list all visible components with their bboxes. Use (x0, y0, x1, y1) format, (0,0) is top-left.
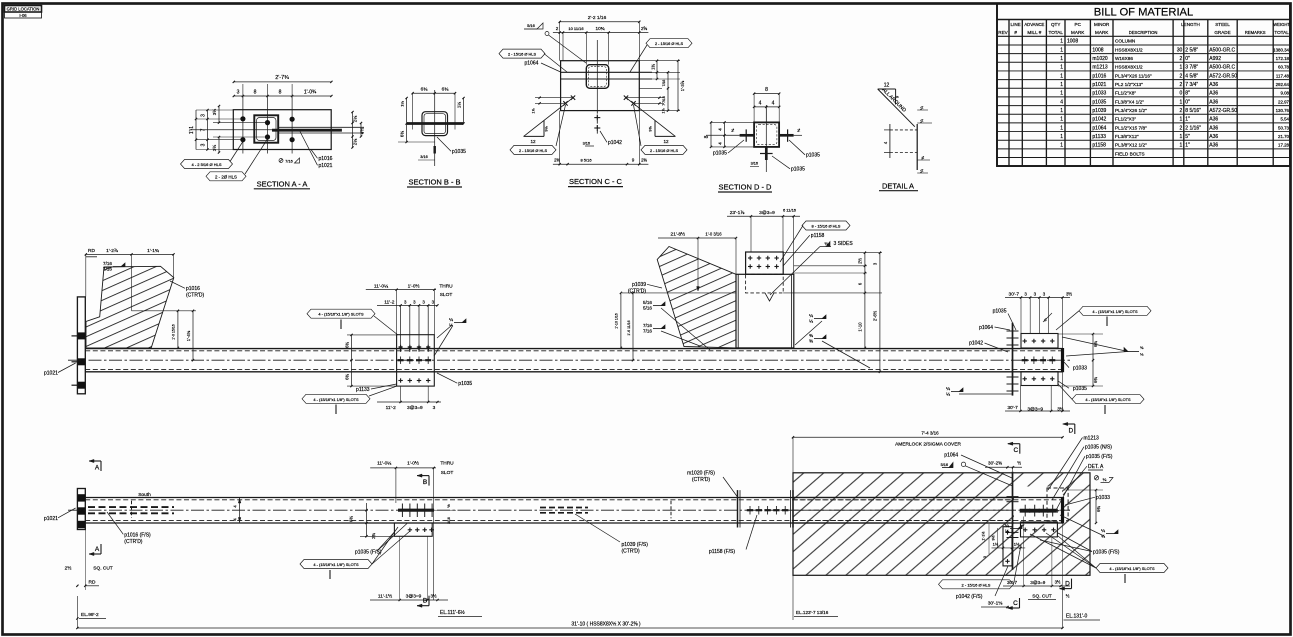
left dimension 6 3/4 1 1/4 (section B-B) (406, 98, 408, 142)
slope triangle left (section C-C) (524, 135, 544, 137)
svg-text:2 - 15/16 Ø HLS: 2 - 15/16 Ø HLS (655, 41, 684, 46)
svg-text:p1033: p1033 (1073, 365, 1087, 371)
svg-text:SECTION B - B: SECTION B - B (408, 178, 460, 187)
svg-text:2: 2 (1180, 82, 1183, 88)
plate p1035 edge bar (section B-B) (407, 122, 464, 125)
plate p1016 face (section A-A) (233, 110, 331, 150)
left dimension 8 and 4 4 (section D-D) (710, 122, 712, 146)
svg-text:3@3=9: 3@3=9 (759, 210, 775, 216)
svg-text:SECTION C - C: SECTION C - C (569, 177, 623, 186)
svg-text:1: 1 (1060, 108, 1063, 114)
svg-text:11'-2: 11'-2 (386, 405, 396, 411)
svg-text:3: 3 (201, 143, 207, 146)
svg-text:3½: 3½ (1066, 291, 1072, 296)
svg-text:MINOR: MINOR (1094, 22, 1110, 27)
svg-text:6 11/16: 6 11/16 (783, 208, 797, 213)
svg-text:1'-3⅞: 1'-3⅞ (680, 80, 685, 91)
dimension 4 4 (section D-D) (754, 106, 779, 108)
callout 2 - 15/16 HLS upper left (section C-C) (499, 49, 545, 58)
svg-text:3@3=9: 3@3=9 (1027, 407, 1043, 413)
hidden lines (bottom elevation) (85, 499, 1062, 501)
svg-text:1'-10: 1'-10 (858, 322, 863, 332)
svg-text:2: 2 (1180, 56, 1183, 62)
overall dimension 31'-10 (bottom) (77, 627, 1062, 629)
svg-text:BILL OF MATERIAL: BILL OF MATERIAL (1094, 7, 1193, 19)
svg-text:p1035: p1035 (993, 308, 1007, 314)
svg-text:12: 12 (530, 139, 536, 144)
svg-text:p1064: p1064 (525, 61, 539, 67)
svg-text:A36: A36 (1209, 99, 1218, 105)
svg-text:1'-10 1/16: 1'-10 1/16 (615, 313, 619, 329)
svg-text:TOTAL: TOTAL (1049, 30, 1064, 35)
svg-text:p1021: p1021 (319, 163, 333, 169)
svg-text:3/16: 3/16 (583, 142, 590, 146)
svg-text:4 - (15/16"x1 1/8") SLOTS: 4 - (15/16"x1 1/8") SLOTS (1109, 566, 1155, 571)
svg-text:22.97: 22.97 (1278, 99, 1290, 104)
svg-text:2⅝: 2⅝ (641, 26, 647, 31)
hidden flange dashed (top elevation) (746, 274, 784, 293)
slot verticals (top view) (400, 305, 402, 352)
svg-text:p1064: p1064 (1092, 125, 1106, 131)
svg-text:⅜: ⅜ (809, 333, 813, 338)
svg-text:1¼: 1¼ (400, 101, 405, 107)
gusset plate p1016 hatched (top elevation) (86, 266, 174, 348)
svg-text:8 5/16: 8 5/16 (580, 158, 592, 163)
svg-text:m1020: m1020 (1092, 56, 1108, 62)
plate p1039 face (section C-C) (561, 61, 640, 111)
callout 2 - 15/16 HLS lower right (section C-C) (641, 145, 687, 154)
svg-text:30'-2⅝: 30'-2⅝ (988, 461, 1002, 466)
svg-text:REV: REV (998, 30, 1008, 35)
svg-text:1: 1 (1060, 117, 1063, 123)
svg-text:7 7/16: 7 7/16 (662, 96, 666, 106)
svg-text:6¾: 6¾ (1093, 377, 1098, 383)
bolt crosses upper row (top view) (398, 346, 402, 348)
cap plate p1158 (top elevation) (746, 252, 784, 274)
svg-text:12: 12 (663, 139, 669, 144)
svg-text:7/16: 7/16 (643, 323, 652, 328)
plate p1035 left bar (section D-D) (740, 134, 755, 137)
bill of material table (997, 4, 1290, 167)
svg-text:17.28: 17.28 (1278, 143, 1290, 148)
plate p1021 bar edge (section A-A) (272, 129, 342, 132)
svg-text:172.18: 172.18 (1276, 56, 1290, 61)
svg-text:¼: ¼ (946, 386, 950, 391)
svg-text:8 - 15/16 Ø HLS: 8 - 15/16 Ø HLS (812, 224, 841, 229)
svg-text:SQ. CUT: SQ. CUT (1032, 594, 1052, 600)
bolts 2 5/16 dia (section A-A) (240, 116, 245, 121)
svg-text:A36: A36 (1209, 143, 1218, 149)
svg-text:5/16: 5/16 (643, 300, 652, 305)
svg-text:#: # (1014, 30, 1017, 35)
svg-text:p1064: p1064 (979, 325, 993, 331)
svg-text:A: A (95, 546, 100, 553)
svg-text:1: 1 (1060, 39, 1063, 45)
member centerline (top elevation) (68, 359, 1070, 361)
dimension row 2 10 11/16 10 3/4 2 5/8 (section C-C) (553, 32, 649, 34)
member outline (top elevation) (85, 348, 1062, 350)
upper dim row 11'-0 1/4 1'-0 1/2 thru slot (bottom) (370, 467, 436, 469)
svg-text:1: 1 (1180, 99, 1183, 105)
svg-text:p1133: p1133 (1092, 134, 1106, 140)
svg-text:30'-1⅛: 30'-1⅛ (988, 601, 1004, 607)
svg-text:WEIGHT: WEIGHT (1273, 22, 1290, 27)
vertical centerline (section D-D) (765, 105, 767, 172)
svg-text:PC: PC (1075, 22, 1082, 27)
bottom dimension row (section C-C) (553, 163, 649, 165)
svg-text:1'-1½: 1'-1½ (982, 532, 986, 541)
svg-text:A36: A36 (1209, 91, 1218, 97)
slope triangle 12 (detail A) (878, 88, 896, 90)
svg-text:1'-0 3/16: 1'-0 3/16 (705, 232, 722, 237)
left dimension 1'-1 (section A-A) (195, 110, 197, 150)
svg-text:FL3/8"X12": FL3/8"X12" (1115, 134, 1139, 139)
bolt bar on centerline (bottom elevation) (1020, 509, 1057, 513)
svg-text:2'-6½: 2'-6½ (873, 310, 878, 321)
m1020 flange marks (bottom elevation) (737, 490, 739, 527)
section marker C bottom (bottom elevation) (1019, 598, 1021, 608)
svg-text:292.64: 292.64 (1276, 82, 1290, 87)
slot dashes between flanges (bottom elevation) (747, 509, 753, 511)
svg-text:3@3=9: 3@3=9 (1030, 580, 1045, 585)
svg-text:p1035: p1035 (806, 153, 820, 159)
callout slots right (bottom elevation) (1096, 564, 1168, 573)
svg-text:p1158: p1158 (1092, 143, 1106, 149)
left dimension 3 1/2 pair (section A-A) (218, 106, 220, 123)
section marker A top (bottom elevation) (89, 460, 101, 462)
svg-text:COLUMN: COLUMN (1115, 39, 1135, 44)
bolt crosses lower (top elevation) (1023, 378, 1027, 380)
svg-text:1'-2⅞: 1'-2⅞ (106, 248, 119, 254)
svg-text:p1039: p1039 (1092, 108, 1106, 114)
svg-text:4½: 4½ (359, 128, 365, 135)
dimension row 3 8 8 1'-0 3/4 (section A-A) (234, 95, 332, 97)
bottom dim row 11'-2 3@3=9 3 (top view) (377, 401, 441, 403)
bolt crosses p1158 (top elevation) (748, 257, 752, 259)
svg-text:HSS8X8X1/2: HSS8X8X1/2 (1115, 47, 1143, 52)
svg-text:1'-0½: 1'-0½ (407, 459, 419, 466)
svg-text:FL3/8"X4 1/2": FL3/8"X4 1/2" (1115, 99, 1144, 104)
svg-text:1½: 1½ (1014, 542, 1020, 547)
end cap plate p1033 (top elevation) (1061, 348, 1064, 372)
svg-text:1008: 1008 (1067, 39, 1078, 45)
svg-text:1'-0½: 1'-0½ (408, 282, 420, 289)
svg-text:⅜: ⅜ (809, 338, 813, 343)
svg-text:p1064: p1064 (944, 453, 958, 459)
svg-text:A36: A36 (1209, 117, 1218, 123)
svg-text:2: 2 (556, 26, 559, 31)
svg-text:8: 8 (279, 90, 282, 96)
svg-text:4 - (15/16"x1 1/8") SLOTS: 4 - (15/16"x1 1/8") SLOTS (313, 562, 359, 567)
svg-text:A36: A36 (1209, 82, 1218, 88)
svg-text:p1035 (F/S): p1035 (F/S) (1093, 549, 1120, 555)
svg-text:1": 1" (1185, 117, 1190, 123)
svg-text:SLOT: SLOT (441, 470, 454, 476)
svg-text:p1133: p1133 (356, 387, 370, 393)
svg-text:p1021: p1021 (1092, 82, 1106, 88)
svg-text:21.70: 21.70 (1278, 134, 1290, 139)
svg-text:5/16: 5/16 (941, 463, 948, 467)
svg-text:¼: ¼ (809, 313, 813, 318)
svg-text:50.73: 50.73 (1278, 125, 1290, 130)
svg-text:2: 2 (1180, 108, 1183, 114)
svg-text:2 - 15/16 Ø HLS: 2 - 15/16 Ø HLS (508, 52, 537, 57)
svg-text:¼: ¼ (919, 106, 924, 110)
gauge ext lines right (section C-C) (626, 97, 664, 99)
plate p1064 edge (bottom elevation) (1012, 472, 1014, 570)
svg-text:A500-GR.C: A500-GR.C (1209, 47, 1235, 53)
svg-text:3½: 3½ (211, 109, 217, 116)
svg-text:p1035: p1035 (791, 167, 805, 173)
svg-text:¼: ¼ (1103, 477, 1107, 482)
svg-text:1: 1 (1060, 134, 1063, 140)
base plate p1021 (bottom elevation) (77, 489, 85, 530)
svg-text:0": 0" (1185, 99, 1190, 105)
svg-text:1'-0 15/16: 1'-0 15/16 (172, 324, 176, 340)
BOM data rows (997, 44, 1290, 46)
member outline (bottom elevation) (85, 497, 1062, 499)
svg-text:1⅞: 1⅞ (661, 109, 665, 114)
HSS tube (section D-D) (754, 122, 779, 146)
svg-text:2 - 15/16 Ø HLS: 2 - 15/16 Ø HLS (650, 148, 679, 153)
plate p1035 right bar (section D-D) (779, 134, 794, 137)
svg-text:D: D (1065, 581, 1070, 588)
svg-text:1: 1 (1180, 143, 1183, 149)
callout slots (bottom slot group) (300, 560, 372, 569)
svg-text:p1016: p1016 (319, 156, 333, 162)
svg-text:A992: A992 (1209, 56, 1221, 62)
svg-text:EL.111'-6½: EL.111'-6½ (440, 609, 466, 616)
top dim row 30'-7 3 3 3 3 1/2 (top elevation right) (1005, 297, 1070, 299)
svg-text:2'-7¾: 2'-7¾ (275, 75, 289, 81)
svg-text:SQ. CUT: SQ. CUT (93, 566, 113, 572)
bottom dim row 30'-7 3@3=9 3 1/2 (top elevation right) (1005, 410, 1070, 412)
amerlock cover hatched block (bottom elevation) (793, 473, 1090, 576)
svg-text:4 - (15/16"x1 1/8") SLOTS: 4 - (15/16"x1 1/8") SLOTS (313, 397, 359, 402)
svg-text:2: 2 (1180, 73, 1183, 79)
bottom plate bar (section D-D) (765, 147, 768, 160)
svg-text:1⅞: 1⅞ (532, 109, 536, 114)
svg-text:FIELD BOLTS: FIELD BOLTS (1115, 151, 1145, 156)
svg-text:QTY: QTY (1051, 22, 1060, 27)
svg-text:2 - 15/16 Ø HLS: 2 - 15/16 Ø HLS (519, 148, 548, 153)
svg-text:RD: RD (88, 248, 95, 254)
svg-text:3 7/8": 3 7/8" (1185, 65, 1198, 71)
svg-text:(CTR'D): (CTR'D) (692, 477, 711, 483)
svg-text:PL3/4"X26 11/16": PL3/4"X26 11/16" (1115, 73, 1152, 78)
svg-text:6¾: 6¾ (344, 374, 349, 380)
svg-text:1: 1 (1060, 47, 1063, 53)
gusset plate p1039 hatched (top elevation) (657, 247, 736, 348)
cover dim 7'-4 3/16 (bottom elevation) (793, 436, 1063, 438)
section marker C top (bottom elevation) (1008, 443, 1020, 445)
svg-text:EL.131'-0: EL.131'-0 (1066, 614, 1087, 620)
svg-text:3½: 3½ (430, 594, 436, 599)
svg-text:m1213: m1213 (1084, 435, 1100, 441)
svg-text:9½: 9½ (992, 536, 996, 541)
svg-text:PL3/4"X26 1/2": PL3/4"X26 1/2" (1115, 108, 1147, 113)
left dims 6 3/4 2 3/4 (bottom slot group) (348, 522, 394, 524)
svg-text:LINE: LINE (1011, 22, 1021, 27)
svg-text:7 3/4": 7 3/4" (1185, 82, 1198, 88)
svg-text:EL.123'-7 13/16: EL.123'-7 13/16 (796, 610, 829, 615)
dimension 2'-2 1/16 (section C-C) (560, 21, 640, 23)
plate p1064 edge lines (section C-C) (561, 71, 652, 73)
svg-text:3@3=9: 3@3=9 (406, 594, 422, 600)
svg-text:130.76: 130.76 (1276, 108, 1290, 113)
svg-text:(CTR'D): (CTR'D) (186, 293, 205, 299)
svg-text:4 - (15/16"x1 1/8") SLOTS: 4 - (15/16"x1 1/8") SLOTS (1092, 309, 1138, 314)
svg-text:2 - 2Ø HLS: 2 - 2Ø HLS (215, 174, 237, 179)
svg-text:1'-1: 1'-1 (189, 126, 195, 134)
svg-text:¼: ¼ (809, 318, 813, 323)
svg-text:0": 0" (1185, 56, 1190, 62)
svg-text:p1042: p1042 (969, 341, 983, 347)
svg-text:(CTR'D): (CTR'D) (622, 548, 641, 554)
svg-text:9⅛: 9⅛ (545, 126, 549, 132)
svg-text:p1033: p1033 (1096, 495, 1110, 501)
svg-text:3½: 3½ (1055, 580, 1061, 585)
svg-text:½: ½ (1017, 461, 1021, 466)
svg-text:TOTAL: TOTAL (1274, 30, 1289, 35)
svg-text:30'-7: 30'-7 (1007, 580, 1018, 585)
bolt plate below (bottom elevation) (1021, 522, 1058, 537)
left dims 6 3/4 6 3/4 (top view slot group) (347, 334, 397, 336)
left dims 1'-10 1/16 1'-6 11/16 (top elevation) (622, 292, 736, 294)
svg-text:3½: 3½ (211, 145, 217, 152)
svg-text:3/16: 3/16 (420, 155, 427, 159)
bottom dim row 11'-1 1/2 3@3=9 3 1/2 (bottom) (370, 599, 448, 601)
svg-text:1'-4⅛: 1'-4⅛ (186, 330, 191, 341)
svg-text:A: A (95, 465, 100, 472)
svg-text:1": 1" (1185, 143, 1190, 149)
svg-text:p1039 (F/S): p1039 (F/S) (622, 542, 649, 548)
svg-text:5/16: 5/16 (643, 305, 652, 310)
svg-text:GRADE: GRADE (1214, 30, 1230, 35)
svg-text:THRU: THRU (440, 460, 454, 466)
left dimension 3 7 3 (section A-A) (207, 110, 209, 150)
gauge ext lines left (section C-C) (535, 97, 573, 99)
svg-text:4 - (15/16"x1 1/8") SLOTS: 4 - (15/16"x1 1/8") SLOTS (318, 312, 364, 317)
dimension 2'-7 3/4 (section A-A) (234, 81, 332, 83)
svg-text:7/16: 7/16 (103, 266, 112, 271)
svg-text:1: 1 (1060, 125, 1063, 131)
dim row RD 1'-2 7/8 1'-1 3/4 (top elevation) (86, 253, 174, 255)
svg-text:B: B (423, 598, 427, 605)
svg-text:2'-2 1/16: 2'-2 1/16 (588, 15, 607, 21)
svg-text:5": 5" (1185, 134, 1190, 140)
svg-text:3: 3 (201, 114, 207, 117)
svg-text:1380.34: 1380.34 (1273, 47, 1289, 52)
svg-text:6¾: 6¾ (344, 342, 349, 348)
svg-text:¼: ¼ (946, 391, 950, 396)
svg-text:2¼: 2¼ (353, 116, 358, 123)
section marker B top (bottom elevation) (417, 475, 429, 477)
end cap p1033 (bottom elevation) (1061, 497, 1064, 524)
svg-text:p1035 (F/S): p1035 (F/S) (1086, 454, 1113, 460)
svg-text:2 1/16": 2 1/16" (1185, 125, 1201, 131)
svg-text:7: 7 (201, 128, 207, 131)
svg-text:6¾: 6¾ (442, 87, 450, 93)
svg-text:SLOT: SLOT (440, 292, 453, 298)
white detail window (bottom elevation) (1014, 487, 1062, 525)
dim 30'-2 5/8 1/2 (bottom elevation) (985, 466, 1022, 468)
callout 2 - 2 dia HLS (section A-A) (206, 172, 246, 181)
svg-text:9⅜: 9⅜ (649, 126, 653, 132)
svg-text:D: D (1068, 428, 1073, 435)
svg-text:LENGTH: LENGTH (1181, 22, 1200, 27)
svg-text:2½: 2½ (65, 565, 72, 572)
svg-text:2⅜: 2⅜ (641, 158, 647, 163)
svg-text:23'-1⅞: 23'-1⅞ (730, 210, 746, 216)
svg-text:1: 1 (1060, 143, 1063, 149)
callout 4 - 2 5/16 dia HLS (section A-A) (181, 160, 233, 169)
svg-text:8": 8" (1185, 91, 1190, 97)
svg-text:21'-8½: 21'-8½ (671, 231, 686, 238)
svg-text:p1035: p1035 (452, 149, 466, 155)
svg-text:p1042: p1042 (608, 140, 622, 146)
svg-text:¼: ¼ (449, 317, 453, 322)
svg-text:¼: ¼ (1005, 528, 1009, 533)
svg-text:4 - 2 5/16 Ø HLS: 4 - 2 5/16 Ø HLS (191, 162, 221, 167)
svg-text:9.08: 9.08 (1280, 91, 1289, 96)
svg-text:(CTR'D): (CTR'D) (628, 289, 647, 295)
svg-text:p1042 (F/S): p1042 (F/S) (956, 594, 983, 600)
svg-text:A36: A36 (1209, 134, 1218, 140)
svg-text:EL.99'-2: EL.99'-2 (81, 612, 99, 618)
svg-text:7/16: 7/16 (662, 80, 666, 87)
svg-text:SECTION D - D: SECTION D - D (719, 183, 773, 192)
svg-text:W16X86: W16X86 (1115, 56, 1133, 61)
svg-text:p1035: p1035 (713, 151, 727, 157)
svg-text:30'-7: 30'-7 (1007, 405, 1018, 411)
svg-text:5/16: 5/16 (527, 23, 536, 28)
svg-text:PL3/8"X12 1/2": PL3/8"X12 1/2" (1115, 143, 1147, 148)
lower flange plate p1035 (top elevation) (1021, 372, 1058, 386)
svg-text:6¾: 6¾ (348, 516, 353, 522)
svg-text:4: 4 (772, 100, 775, 106)
svg-text:¼: ¼ (919, 119, 924, 123)
callout 8 - 15/16 HLS (top elevation) (802, 221, 850, 230)
BOM header row (1008, 20, 1010, 167)
callout slots upper (top view) (307, 309, 375, 318)
svg-text:1'-6 11/16: 1'-6 11/16 (627, 320, 631, 335)
callout 2 - 15/16 HLS upper right (section C-C) (646, 39, 692, 48)
dashed HSS corner (detail A) (916, 124, 918, 170)
bolt symbols below plate (section C-C) (594, 117, 600, 119)
DET A dashed box (bottom elevation) (1047, 488, 1068, 521)
section marker B bottom (bottom elevation) (428, 596, 430, 606)
in-member slot dashes (top view) (398, 359, 404, 361)
svg-text:A572-GR.50: A572-GR.50 (1209, 73, 1237, 79)
surface finish symbol (section A-A) (279, 159, 283, 163)
svg-text:GRID LOCATION: GRID LOCATION (7, 7, 40, 12)
svg-text:p1016: p1016 (1092, 73, 1106, 79)
svg-text:p1035 (N/S): p1035 (N/S) (1085, 445, 1112, 451)
svg-text:11'-1½: 11'-1½ (378, 593, 392, 600)
svg-text:1: 1 (1060, 56, 1063, 62)
svg-text:1: 1 (1180, 134, 1183, 140)
column stub m1020 (top elevation) (736, 274, 794, 348)
HSS tube (section C-C) (586, 65, 608, 89)
member lines over cover (bottom elevation) (793, 497, 1063, 499)
svg-text:4: 4 (759, 100, 762, 106)
plate p1064 edge (top elevation) (1012, 323, 1014, 396)
svg-text:p1021: p1021 (44, 516, 58, 522)
svg-text:STEEL: STEEL (1215, 22, 1230, 27)
svg-text:DET. A: DET. A (1088, 464, 1104, 470)
svg-text:60.78: 60.78 (1278, 65, 1290, 70)
